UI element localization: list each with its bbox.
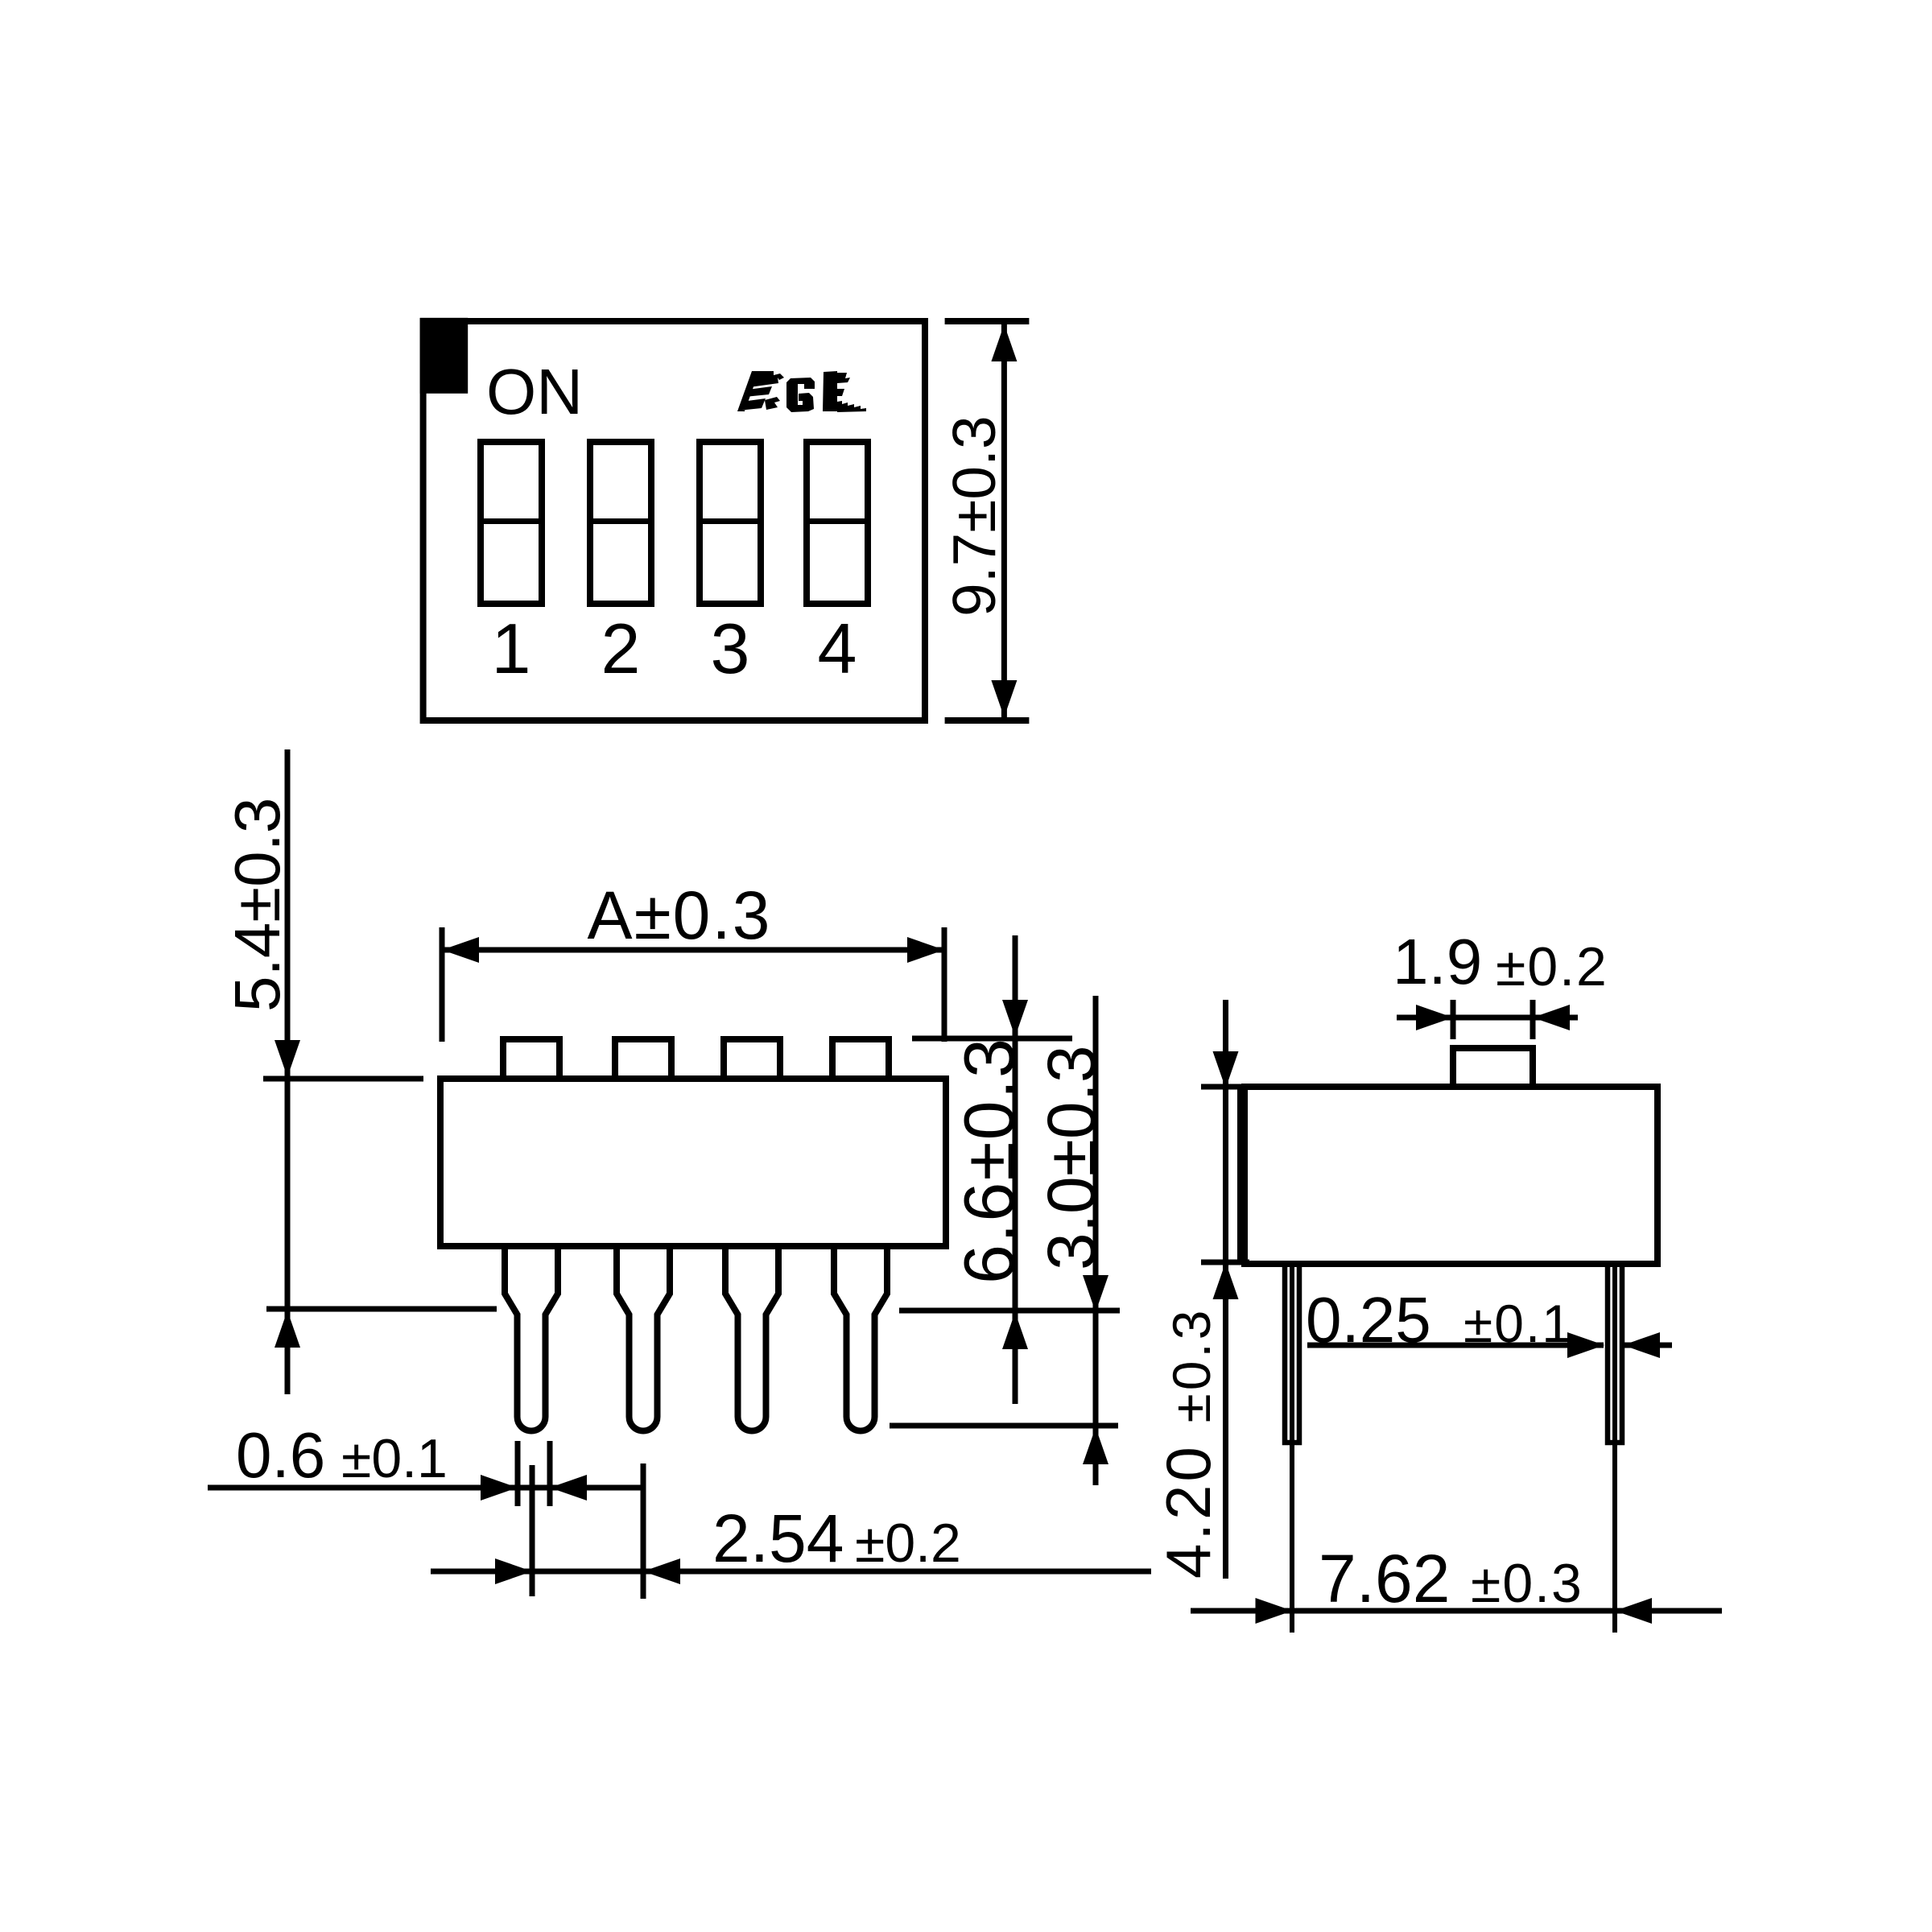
svg-text:6.6±0.3: 6.6±0.3 [949, 1037, 1029, 1284]
svg-text:3: 3 [711, 609, 750, 688]
svg-text:A±0.3: A±0.3 [588, 877, 772, 953]
dimension 6.6±0.3 line [1013, 935, 1018, 1404]
dimension 4.20±0.3 line [1223, 1000, 1228, 1579]
switch 2 slider [590, 442, 651, 604]
logo ECE glyph1 [737, 371, 784, 411]
front pin 4 [834, 1246, 887, 1431]
svg-text:±0.2: ±0.2 [1496, 936, 1608, 997]
svg-text:1: 1 [492, 609, 531, 688]
switch 1 slider [481, 442, 542, 604]
dimension 5.4±0.3 line [285, 749, 291, 1394]
svg-text:±0.1: ±0.1 [341, 1428, 448, 1489]
side body outline [1245, 1087, 1657, 1264]
dimension A±0.3 extension lines [440, 927, 445, 1042]
svg-text:±0.1: ±0.1 [1463, 1294, 1573, 1353]
dimension 3.0±0.3 line [1093, 996, 1099, 1485]
svg-text:±0.3: ±0.3 [1471, 1553, 1583, 1614]
dimension 9.7±0.3 ticks [945, 318, 1030, 324]
side pin left [1285, 1264, 1299, 1443]
front pin 2 [617, 1246, 670, 1431]
front actuator 1 [503, 1039, 559, 1079]
front actuator 4 [832, 1039, 889, 1079]
svg-text:4.20 ±0.3: 4.20 ±0.3 [1153, 1307, 1224, 1579]
front actuator 2 [615, 1039, 671, 1079]
svg-text:0.6: 0.6 [236, 1419, 325, 1491]
dimension 0.25±0.1 line [1307, 1343, 1604, 1348]
pin1 corner index mark (black square) [420, 318, 469, 394]
dimension 9.7±0.3 line [1001, 321, 1007, 720]
svg-text:2.54: 2.54 [712, 1501, 844, 1576]
dimension 4.20±0.3 extension line at body edge [1237, 1087, 1242, 1264]
front actuator 3 [724, 1039, 780, 1079]
svg-text:1.9: 1.9 [1393, 926, 1482, 997]
svg-text:9.7±0.3: 9.7±0.3 [940, 415, 1008, 617]
front pin 3 [725, 1246, 778, 1431]
svg-text:7.62: 7.62 [1319, 1541, 1451, 1616]
front body outline [440, 1079, 946, 1246]
dimension 7.62±0.3 line [1191, 1608, 1722, 1614]
svg-text:4: 4 [818, 609, 857, 688]
dimension 1.9±0.2 line [1397, 1015, 1578, 1021]
side pin right [1608, 1264, 1622, 1443]
switch 4 slider [807, 442, 868, 604]
svg-text:ON: ON [486, 356, 583, 427]
top view body outline [423, 321, 925, 720]
side actuator [1453, 1048, 1533, 1087]
svg-text:±0.2: ±0.2 [855, 1513, 961, 1574]
switch 3 slider [700, 442, 761, 604]
svg-text:2: 2 [601, 609, 641, 688]
dimension 0.6±0.1 line [208, 1485, 645, 1491]
dimension 2.54±0.2 line [431, 1569, 1151, 1575]
logo ECE glyph2 [786, 378, 815, 412]
svg-text:5.4±0.3: 5.4±0.3 [221, 798, 293, 1012]
dimension A±0.3 line [442, 947, 944, 953]
svg-text:3.0±0.3: 3.0±0.3 [1034, 1045, 1109, 1270]
logo ECE glyph3 [823, 371, 866, 412]
front pin 1 [505, 1246, 558, 1431]
svg-text:0.25: 0.25 [1306, 1284, 1431, 1356]
